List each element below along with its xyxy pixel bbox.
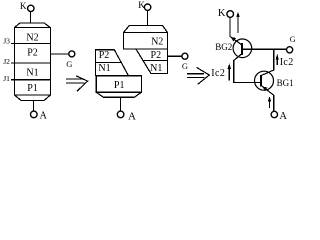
svg-text:BG2: BG2 [215, 42, 232, 52]
right P2/N1 rows outline (middle) [136, 49, 168, 74]
svg-text:A: A [279, 111, 287, 121]
junction J2 line [11, 62, 50, 64]
wire K to BG2 emitter [230, 17, 242, 45]
svg-text:N2: N2 [151, 37, 163, 48]
cathode contact plate (left) [15, 23, 50, 27]
svg-text:N1: N1 [26, 67, 38, 78]
transistor BG2 circle [233, 39, 252, 58]
wire K lead (middle) [146, 10, 148, 25]
svg-text:P1: P1 [114, 80, 125, 91]
terminal G circle (circuit) [287, 47, 293, 53]
wire A lead (middle) [119, 97, 121, 111]
wire K lead (left) [30, 12, 32, 24]
transistor BG1 circle [255, 71, 274, 90]
junction J3 line [11, 43, 50, 45]
terminal K circle (circuit) [227, 11, 234, 18]
svg-text:P1: P1 [27, 83, 38, 94]
svg-text:Ic2: Ic2 [280, 57, 294, 68]
svg-text:BG1: BG1 [277, 78, 294, 88]
transistor BG2 emitter arrow (NPN) [231, 37, 236, 42]
svg-text:J3: J3 [3, 36, 10, 45]
terminal A circle (left) [31, 111, 38, 118]
transistor BG2 base bar [241, 43, 243, 55]
transistor BG1 base bar [260, 75, 262, 87]
wire A lead (left) [33, 101, 35, 112]
svg-text:P2: P2 [151, 50, 162, 61]
implication arrow 2 [187, 67, 209, 84]
N2 block (middle) [124, 33, 168, 49]
svg-text:K: K [20, 1, 27, 11]
divider P2/N1 left (middle) [96, 61, 122, 63]
svg-text:Ic2: Ic2 [211, 68, 225, 79]
svg-text:N1: N1 [150, 63, 162, 74]
svg-text:J1: J1 [3, 74, 10, 83]
implication arrow 1 [66, 76, 88, 91]
terminal A circle (middle) [117, 111, 124, 118]
svg-text:A: A [128, 110, 136, 121]
svg-text:A: A [40, 111, 48, 121]
anode current arrow [268, 96, 272, 108]
terminal G circle (middle) [182, 53, 188, 59]
svg-text:N2: N2 [26, 33, 38, 44]
layer stack P1-N1-P2-N2 (left) [15, 27, 51, 95]
BG2 base lead to G [242, 48, 286, 50]
divider P2/N1 right (middle) [143, 60, 168, 62]
terminal K circle (left) [28, 5, 34, 11]
wire BG2 base node to BG1 collector [261, 49, 274, 75]
svg-text:G: G [66, 59, 72, 69]
terminal A circle (circuit) [271, 111, 277, 117]
P1 block (middle) [96, 76, 141, 92]
svg-text:J2: J2 [3, 57, 10, 66]
anode contact plate (middle) [96, 92, 141, 97]
transistor BG1 emitter arrow (PNP) [262, 86, 267, 91]
left P2/N1 rows outline (middle) [96, 50, 129, 76]
terminal G circle (left) [69, 51, 75, 57]
svg-text:N1: N1 [98, 63, 110, 74]
junction J1 line [11, 79, 50, 81]
svg-text:P2: P2 [27, 48, 38, 59]
BG2 collector wire to BG1 base [234, 54, 261, 83]
current arrow Ic2 left [227, 64, 231, 81]
svg-text:P2: P2 [99, 50, 110, 61]
cathode current arrow [236, 12, 240, 34]
current arrow Ic2 right [276, 54, 279, 65]
gate lead wire (middle) [168, 55, 182, 57]
anode contact plate (left) [15, 95, 51, 101]
cathode contact plate (middle) [124, 26, 168, 33]
svg-text:G: G [182, 61, 188, 71]
gate lead wire (left) [50, 53, 69, 55]
terminal K circle (middle) [144, 4, 150, 10]
svg-text:K: K [218, 8, 226, 19]
svg-text:G: G [290, 35, 296, 44]
transistor BG1 emitter wire to A [261, 86, 274, 112]
